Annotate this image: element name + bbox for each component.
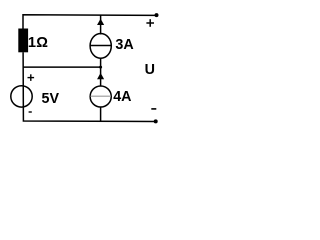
svg-text:Ω: Ω: [36, 35, 48, 51]
svg-text:5V: 5V: [42, 91, 60, 107]
svg-text:3A: 3A: [115, 37, 133, 53]
svg-text:4A: 4A: [113, 89, 131, 105]
svg-text:U: U: [145, 62, 155, 78]
svg-text:1: 1: [28, 35, 36, 51]
